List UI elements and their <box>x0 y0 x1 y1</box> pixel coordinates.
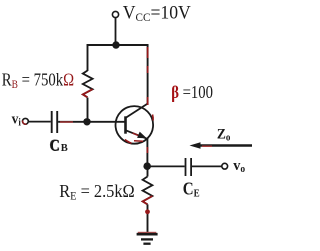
node red dot above ground <box>145 209 150 214</box>
terminal vi red trace <box>23 121 27 125</box>
capacitor CE <box>185 158 187 176</box>
wire emitter node to RE <box>147 166 149 176</box>
transistor red arc bottom <box>125 140 132 144</box>
arrow Zo red segment <box>202 145 212 147</box>
wire RB bottom vertical <box>87 98 89 122</box>
wire emitter vertical <box>146 138 148 166</box>
wire vi to CB <box>28 121 51 123</box>
wire CE to vo <box>192 165 222 167</box>
node emitter junction <box>143 162 151 170</box>
resistor RB red overlay <box>83 89 93 97</box>
resistor RB <box>83 71 93 98</box>
transistor emitter line <box>126 130 147 138</box>
svg-text:B: B <box>61 143 68 154</box>
transistor red arc right <box>152 115 155 121</box>
wire collector vertical <box>147 44 149 105</box>
wire RE bottom <box>147 204 149 233</box>
transistor Q1 circle <box>116 106 154 144</box>
ground bar 3 <box>143 243 150 245</box>
svg-text:β =100: β =100 <box>171 84 213 102</box>
transistor emitter arrowhead <box>137 132 147 139</box>
transistor base bar <box>124 116 127 133</box>
wire emitter to CE <box>147 165 184 167</box>
capacitor CB <box>51 111 53 133</box>
node top junction <box>112 41 119 48</box>
wire VCC down <box>115 18 117 45</box>
wire collector red segments <box>147 47 149 58</box>
arrow Zo <box>198 144 252 146</box>
transistor emitter red under-trace <box>134 140 143 143</box>
resistor RE red overlay <box>143 196 153 204</box>
resistor RE <box>143 177 153 205</box>
ground bar 1 <box>137 233 158 236</box>
wire CB to base <box>58 121 125 123</box>
wire red segment after CB <box>60 121 73 123</box>
ground bar 2 <box>141 238 153 240</box>
ground red bar <box>138 232 157 234</box>
node base junction <box>83 118 90 125</box>
wire emitter red segment <box>146 147 148 153</box>
wire RB top vertical <box>87 44 89 71</box>
wire top horizontal <box>87 44 149 46</box>
emitter red dash upper <box>133 133 140 136</box>
terminal vo <box>222 163 228 169</box>
terminal vi <box>23 118 29 124</box>
svg-text:C: C <box>49 136 59 154</box>
transistor collector line <box>126 104 147 118</box>
terminal VCC <box>112 11 118 17</box>
svg-text:VCC=10V: VCC=10V <box>123 2 192 24</box>
